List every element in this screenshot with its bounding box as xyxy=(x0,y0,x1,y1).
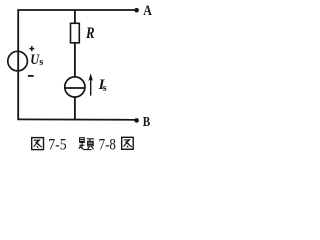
svg-text:B: B xyxy=(143,115,150,130)
caption: hanzi TU (figure) second occurrence, drawn as paths xyxy=(122,137,134,149)
wire: left vertical branch (passes through voltage source) xyxy=(17,10,19,119)
svg-text:s: s xyxy=(103,83,107,94)
current source Is circle xyxy=(65,77,85,97)
svg-text:R: R xyxy=(85,25,94,42)
caption: hanzi TI (problem), drawn as paths xyxy=(79,138,94,150)
node B dot xyxy=(134,118,139,123)
current source internal horizontal bar xyxy=(65,87,84,89)
voltage source U_s circle xyxy=(8,51,28,71)
caption: hanzi TU (figure) first occurrence, drawn as paths xyxy=(32,138,44,150)
wire: bottom horizontal from left branch to node B xyxy=(17,118,135,120)
svg-text:s: s xyxy=(39,57,43,68)
svg-text:A: A xyxy=(143,3,152,19)
node A dot xyxy=(134,8,139,13)
current direction arrow xyxy=(88,73,93,95)
wire: middle branch, current source to bottom wire xyxy=(74,97,76,119)
polarity minus sign xyxy=(28,75,34,77)
wire: top horizontal from left branch to node A xyxy=(17,9,135,11)
wire: middle branch, top wire to resistor xyxy=(74,10,76,24)
polarity plus sign xyxy=(29,46,34,51)
svg-text:7-8: 7-8 xyxy=(99,137,116,154)
svg-text:7-5: 7-5 xyxy=(48,137,66,154)
resistor R body xyxy=(71,23,80,43)
wire: middle branch, resistor to current source xyxy=(74,43,76,77)
